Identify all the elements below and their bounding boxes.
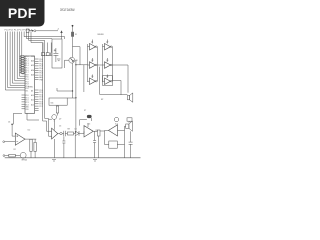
svg-text:F1: F1	[75, 34, 77, 36]
svg-text:P2.7: P2.7	[39, 106, 43, 108]
svg-text:P3.3: P3.3	[26, 84, 29, 86]
svg-text:R2: R2	[14, 149, 16, 151]
svg-text:IRF540: IRF540	[22, 160, 28, 162]
svg-text:P1.0 P1.1 P1.2 P1.3 P1.4 P1.5: P1.0 P1.1 P1.2 P1.3 P1.4 P1.5	[5, 30, 33, 32]
svg-text:VSS: VSS	[26, 109, 29, 111]
svg-text:P2.4: P2.4	[26, 104, 29, 106]
svg-text:Q8: Q8	[75, 60, 77, 62]
svg-text:P3.1: P3.1	[26, 79, 29, 81]
svg-text:P3.5: P3.5	[26, 88, 29, 90]
svg-text:RST: RST	[26, 74, 29, 76]
svg-text:A14: A14	[31, 103, 34, 106]
svg-text:Q7: Q7	[59, 118, 61, 120]
svg-text:D2: D2	[75, 129, 77, 131]
svg-text:AT89S51: AT89S51	[28, 85, 33, 88]
svg-text:P1.5: P1.5	[26, 68, 29, 70]
svg-text:A8: A8	[31, 90, 33, 93]
svg-text:IC2: IC2	[28, 130, 31, 132]
svg-text:P2.1: P2.1	[26, 97, 29, 99]
svg-text:PSE: PSE	[39, 80, 43, 82]
svg-text:IC3: IC3	[88, 124, 91, 126]
svg-text:C6: C6	[8, 122, 10, 124]
svg-text:Q3: Q3	[91, 60, 93, 62]
svg-text:P1.4: P1.4	[26, 65, 29, 67]
svg-text:+5: +5	[57, 29, 59, 31]
svg-text:Q1: Q1	[91, 42, 93, 44]
svg-text:DRIVER: DRIVER	[98, 34, 104, 36]
svg-text:XTL: XTL	[26, 91, 29, 93]
svg-text:AD0: AD0	[31, 60, 34, 63]
svg-text:AD2: AD2	[31, 64, 34, 67]
svg-text:P3.2: P3.2	[26, 81, 29, 83]
svg-text:GND: GND	[26, 107, 30, 109]
svg-text:P1.2: P1.2	[26, 61, 29, 63]
svg-text:P2.3: P2.3	[26, 102, 29, 104]
svg-text:P2.2: P2.2	[26, 100, 29, 102]
svg-text:AD6: AD6	[31, 73, 34, 76]
svg-text:CIRCUIT DIAGRAM: CIRCUIT DIAGRAM	[60, 8, 75, 12]
svg-text:Q2: Q2	[106, 42, 108, 44]
svg-text:P3.0: P3.0	[26, 77, 29, 79]
svg-text:Q5: Q5	[91, 76, 93, 78]
svg-text:IC4: IC4	[115, 124, 118, 126]
svg-text:XT: XT	[84, 110, 86, 112]
svg-text:AD4: AD4	[31, 69, 34, 72]
svg-text:P2.0: P2.0	[26, 95, 29, 97]
svg-text:P3.4: P3.4	[26, 86, 29, 88]
svg-text:R9: R9	[96, 130, 98, 132]
svg-text:LS1: LS1	[128, 122, 131, 124]
svg-text:Q6: Q6	[106, 76, 108, 78]
svg-text:A12: A12	[31, 99, 34, 102]
svg-text:Q4: Q4	[106, 60, 108, 62]
svg-text:P1.3: P1.3	[26, 63, 29, 65]
svg-text:P1.6: P1.6	[26, 70, 29, 72]
svg-text:A10: A10	[31, 94, 34, 97]
svg-text:PDF: PDF	[8, 5, 37, 21]
svg-text:P1.7: P1.7	[26, 72, 29, 74]
svg-text:555: 555	[51, 102, 54, 104]
svg-text:C3: C3	[59, 126, 61, 128]
svg-text:P1.1: P1.1	[26, 58, 29, 60]
svg-text:P1.0: P1.0	[26, 56, 29, 58]
svg-text:R8: R8	[68, 129, 70, 131]
svg-text:SP: SP	[101, 99, 104, 101]
